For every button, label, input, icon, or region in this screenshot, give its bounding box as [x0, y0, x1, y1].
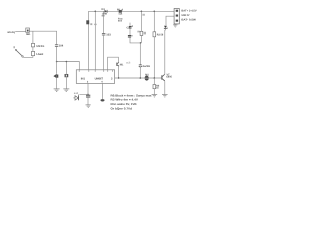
- mark on pin3 line: [94, 24, 96, 25]
- diode D1: [105, 10, 108, 13]
- node junction: [154, 11, 156, 13]
- output wire: [115, 77, 162, 79]
- wire: [56, 47, 58, 62]
- wire: [166, 16, 174, 25]
- node junction: [87, 94, 88, 95]
- wire: [174, 23, 176, 26]
- diode VD2: [73, 94, 78, 100]
- transistor Q1: [116, 63, 119, 67]
- resistor RP2: [32, 51, 35, 55]
- wire: [15, 30, 26, 32]
- motor M1: [145, 76, 150, 81]
- connector pin squares: [176, 10, 178, 22]
- wire: [65, 62, 67, 74]
- top supply rail wire: [89, 10, 175, 12]
- IC pin marks top: [79, 70, 113, 71]
- wire: [32, 31, 34, 43]
- resistor RP1: [32, 43, 35, 47]
- wire: [140, 36, 142, 43]
- svg-text:Or bQne 0.7Vd: Or bQne 0.7Vd: [111, 107, 133, 111]
- switch SB1: [26, 28, 30, 32]
- IC U1 box: [76, 70, 114, 84]
- wire: [32, 47, 34, 52]
- node junction: [154, 77, 156, 79]
- wire: [56, 78, 58, 89]
- ground: [173, 25, 178, 27]
- node junction: [118, 77, 119, 78]
- resistor R6: [153, 85, 156, 89]
- svg-text:GND 0V: GND 0V: [181, 14, 189, 17]
- svg-text:103: 103: [106, 34, 111, 37]
- label D1 value row2: [102, 15, 105, 17]
- svg-text:BAT+ 3-4.5V: BAT+ 3-4.5V: [181, 9, 196, 12]
- wire C2 C3 line: [129, 23, 131, 27]
- svg-text:C805: C805: [166, 76, 172, 79]
- node junction: [140, 77, 142, 79]
- ground: [63, 89, 69, 91]
- wire: [65, 77, 67, 88]
- svg-text:SB1: SB1: [26, 33, 31, 36]
- capacitor C1: [102, 34, 106, 35]
- wire: [103, 35, 105, 70]
- wire Q2 emitter: [164, 81, 166, 94]
- svg-text:R6:Block = 4mm : Sanyo max: R6:Block = 4mm : Sanyo max: [111, 93, 152, 97]
- wire osc branch to Q1: [108, 57, 119, 70]
- IC bottom pin4 wire: [102, 83, 104, 99]
- node junction: [95, 11, 97, 13]
- capacitor C1 line: [103, 11, 105, 33]
- svg-text:Rnn aolne 5V, 1VB: Rnn aolne 5V, 1VB: [111, 102, 137, 106]
- capacitor C6: [86, 95, 90, 97]
- svg-text:4u/16: 4u/16: [142, 65, 150, 68]
- switch S1: [14, 46, 23, 57]
- svg-text:51k: 51k: [119, 12, 123, 15]
- wire: [23, 56, 33, 58]
- wire: [87, 97, 89, 104]
- ground: [54, 89, 60, 91]
- buzzer BL: [53, 74, 58, 79]
- label R4 value: [144, 32, 146, 35]
- ground: [162, 95, 168, 97]
- svg-text:901: 901: [120, 63, 124, 66]
- wire C5 drop: [139, 43, 141, 65]
- capacitor C2: [129, 27, 132, 28]
- wire: [139, 68, 141, 78]
- label right of blob: [90, 23, 92, 25]
- node junction: [66, 61, 68, 63]
- crystal Y1: [65, 74, 68, 77]
- svg-text:t-bast: t-bast: [36, 52, 43, 56]
- resistor R3: [153, 32, 156, 37]
- wire branch: [79, 93, 88, 95]
- svg-text:wx-nq: wx-nq: [7, 30, 15, 34]
- resistor R4: [140, 31, 143, 35]
- ground: [152, 95, 158, 97]
- wire: [153, 37, 155, 78]
- label mark: [142, 14, 145, 16]
- capacitor C3: [128, 36, 131, 37]
- svg-text:R3 Wfro 4m = 4.4V: R3 Wfro 4m = 4.4V: [111, 98, 139, 102]
- IC bottom pin3 wire: [87, 83, 89, 95]
- ground: [86, 105, 91, 107]
- wire R6 drop: [153, 78, 155, 85]
- svg-text:BAT- 0.5W: BAT- 0.5W: [181, 19, 196, 22]
- svg-text:R3 56: R3 56: [157, 34, 164, 37]
- connector J1: [174, 9, 179, 24]
- capacitor C5: [139, 65, 142, 67]
- wire R4 drop: [140, 11, 142, 31]
- node junction: [141, 11, 143, 13]
- wire: [130, 37, 140, 43]
- svg-text:12k Rm: 12k Rm: [36, 44, 44, 48]
- wire R3 drop: [153, 11, 155, 32]
- wire: [56, 62, 58, 74]
- wire: [129, 28, 131, 35]
- LED VD1: [164, 26, 168, 31]
- resistor R1 body: [119, 10, 122, 13]
- wire: [29, 31, 56, 44]
- svg-text:104: 104: [59, 44, 64, 47]
- wire: [153, 89, 155, 95]
- wire pin2 drop: [88, 11, 90, 70]
- node junction: [56, 61, 58, 63]
- svg-text:IN1: IN1: [81, 77, 86, 80]
- wire Q1 emitter: [118, 66, 120, 78]
- node junction: [140, 42, 142, 44]
- capacitor C7: [101, 99, 105, 101]
- capacitor C4: [55, 45, 58, 47]
- wire: [57, 62, 80, 70]
- transistor Q2: [161, 74, 165, 81]
- wire: [94, 11, 96, 70]
- svg-text:6we: 6we: [118, 20, 123, 23]
- wire Q2 collector: [164, 30, 167, 74]
- mark: [132, 25, 133, 27]
- component blob on pin2 line: [86, 20, 89, 24]
- mark: [131, 35, 132, 36]
